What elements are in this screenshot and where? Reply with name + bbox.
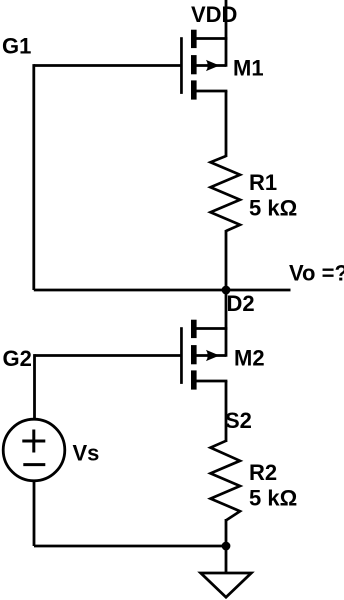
channel bar bottom (source) [191,80,197,99]
svg-text:R2: R2 [249,460,277,485]
svg-text:G2: G2 [3,346,32,371]
channel bar bottom (source) [191,370,197,389]
arrowhead body M2 [206,350,220,361]
svg-text:Vo =?: Vo =? [289,261,344,286]
wire G2 down to Vs [33,354,36,418]
svg-text:M1: M1 [233,56,264,81]
circle body [3,419,65,481]
resistor R1 [211,156,241,231]
svg-text:5 kΩ: 5 kΩ [249,486,297,511]
svg-text:R1: R1 [249,170,277,195]
wire Vs bottom to ground rail [33,482,36,546]
wire bottom rail [34,545,226,548]
resistor R2 [211,441,241,521]
wire M1 gate lead [34,64,182,67]
wire R2 bottom to bottom node [225,519,228,546]
wire to ground [225,546,228,573]
minus sign [23,463,45,466]
svg-text:M2: M2 [234,346,265,371]
gate line [180,327,183,384]
wire R1 bottom to node D2 [225,230,228,290]
wire M1 source down to R1 [225,91,228,157]
junction node bottom [222,542,231,551]
wire source horizontal [195,90,227,93]
voltage source Vs [3,419,65,481]
svg-text:VDD: VDD [191,2,237,27]
wire left vertical G1 to Vo node [32,64,35,290]
gate line [180,37,183,94]
junction node D2 [222,286,231,295]
wire body arrow line [195,64,226,67]
wire body arrow line [195,354,226,357]
wire drain horizontal [195,37,227,40]
transistor M2 [180,320,227,390]
svg-text:G1: G1 [2,34,31,59]
channel bar top (drain) [191,320,197,338]
wire VDD vertical to M1 [225,0,228,67]
svg-text:5 kΩ: 5 kΩ [249,196,297,221]
wire Vo node horizontal [34,289,291,292]
plus sign [22,440,45,443]
arrowhead body M1 [206,60,220,71]
channel bar top (drain) [191,30,197,48]
wire drain horizontal [195,327,227,330]
channel bar middle (body) [191,55,197,74]
ground [201,573,252,597]
channel bar middle (body) [191,345,197,364]
wire node D2 down to M2 [225,290,228,357]
svg-text:S2: S2 [225,408,252,433]
wire M2 gate lead [35,354,182,357]
wire M2 source down to R2 [225,381,228,442]
transistor M1 [180,30,227,100]
svg-text:Vs: Vs [73,441,100,466]
svg-text:D2: D2 [227,291,255,316]
wire source horizontal [195,380,227,383]
